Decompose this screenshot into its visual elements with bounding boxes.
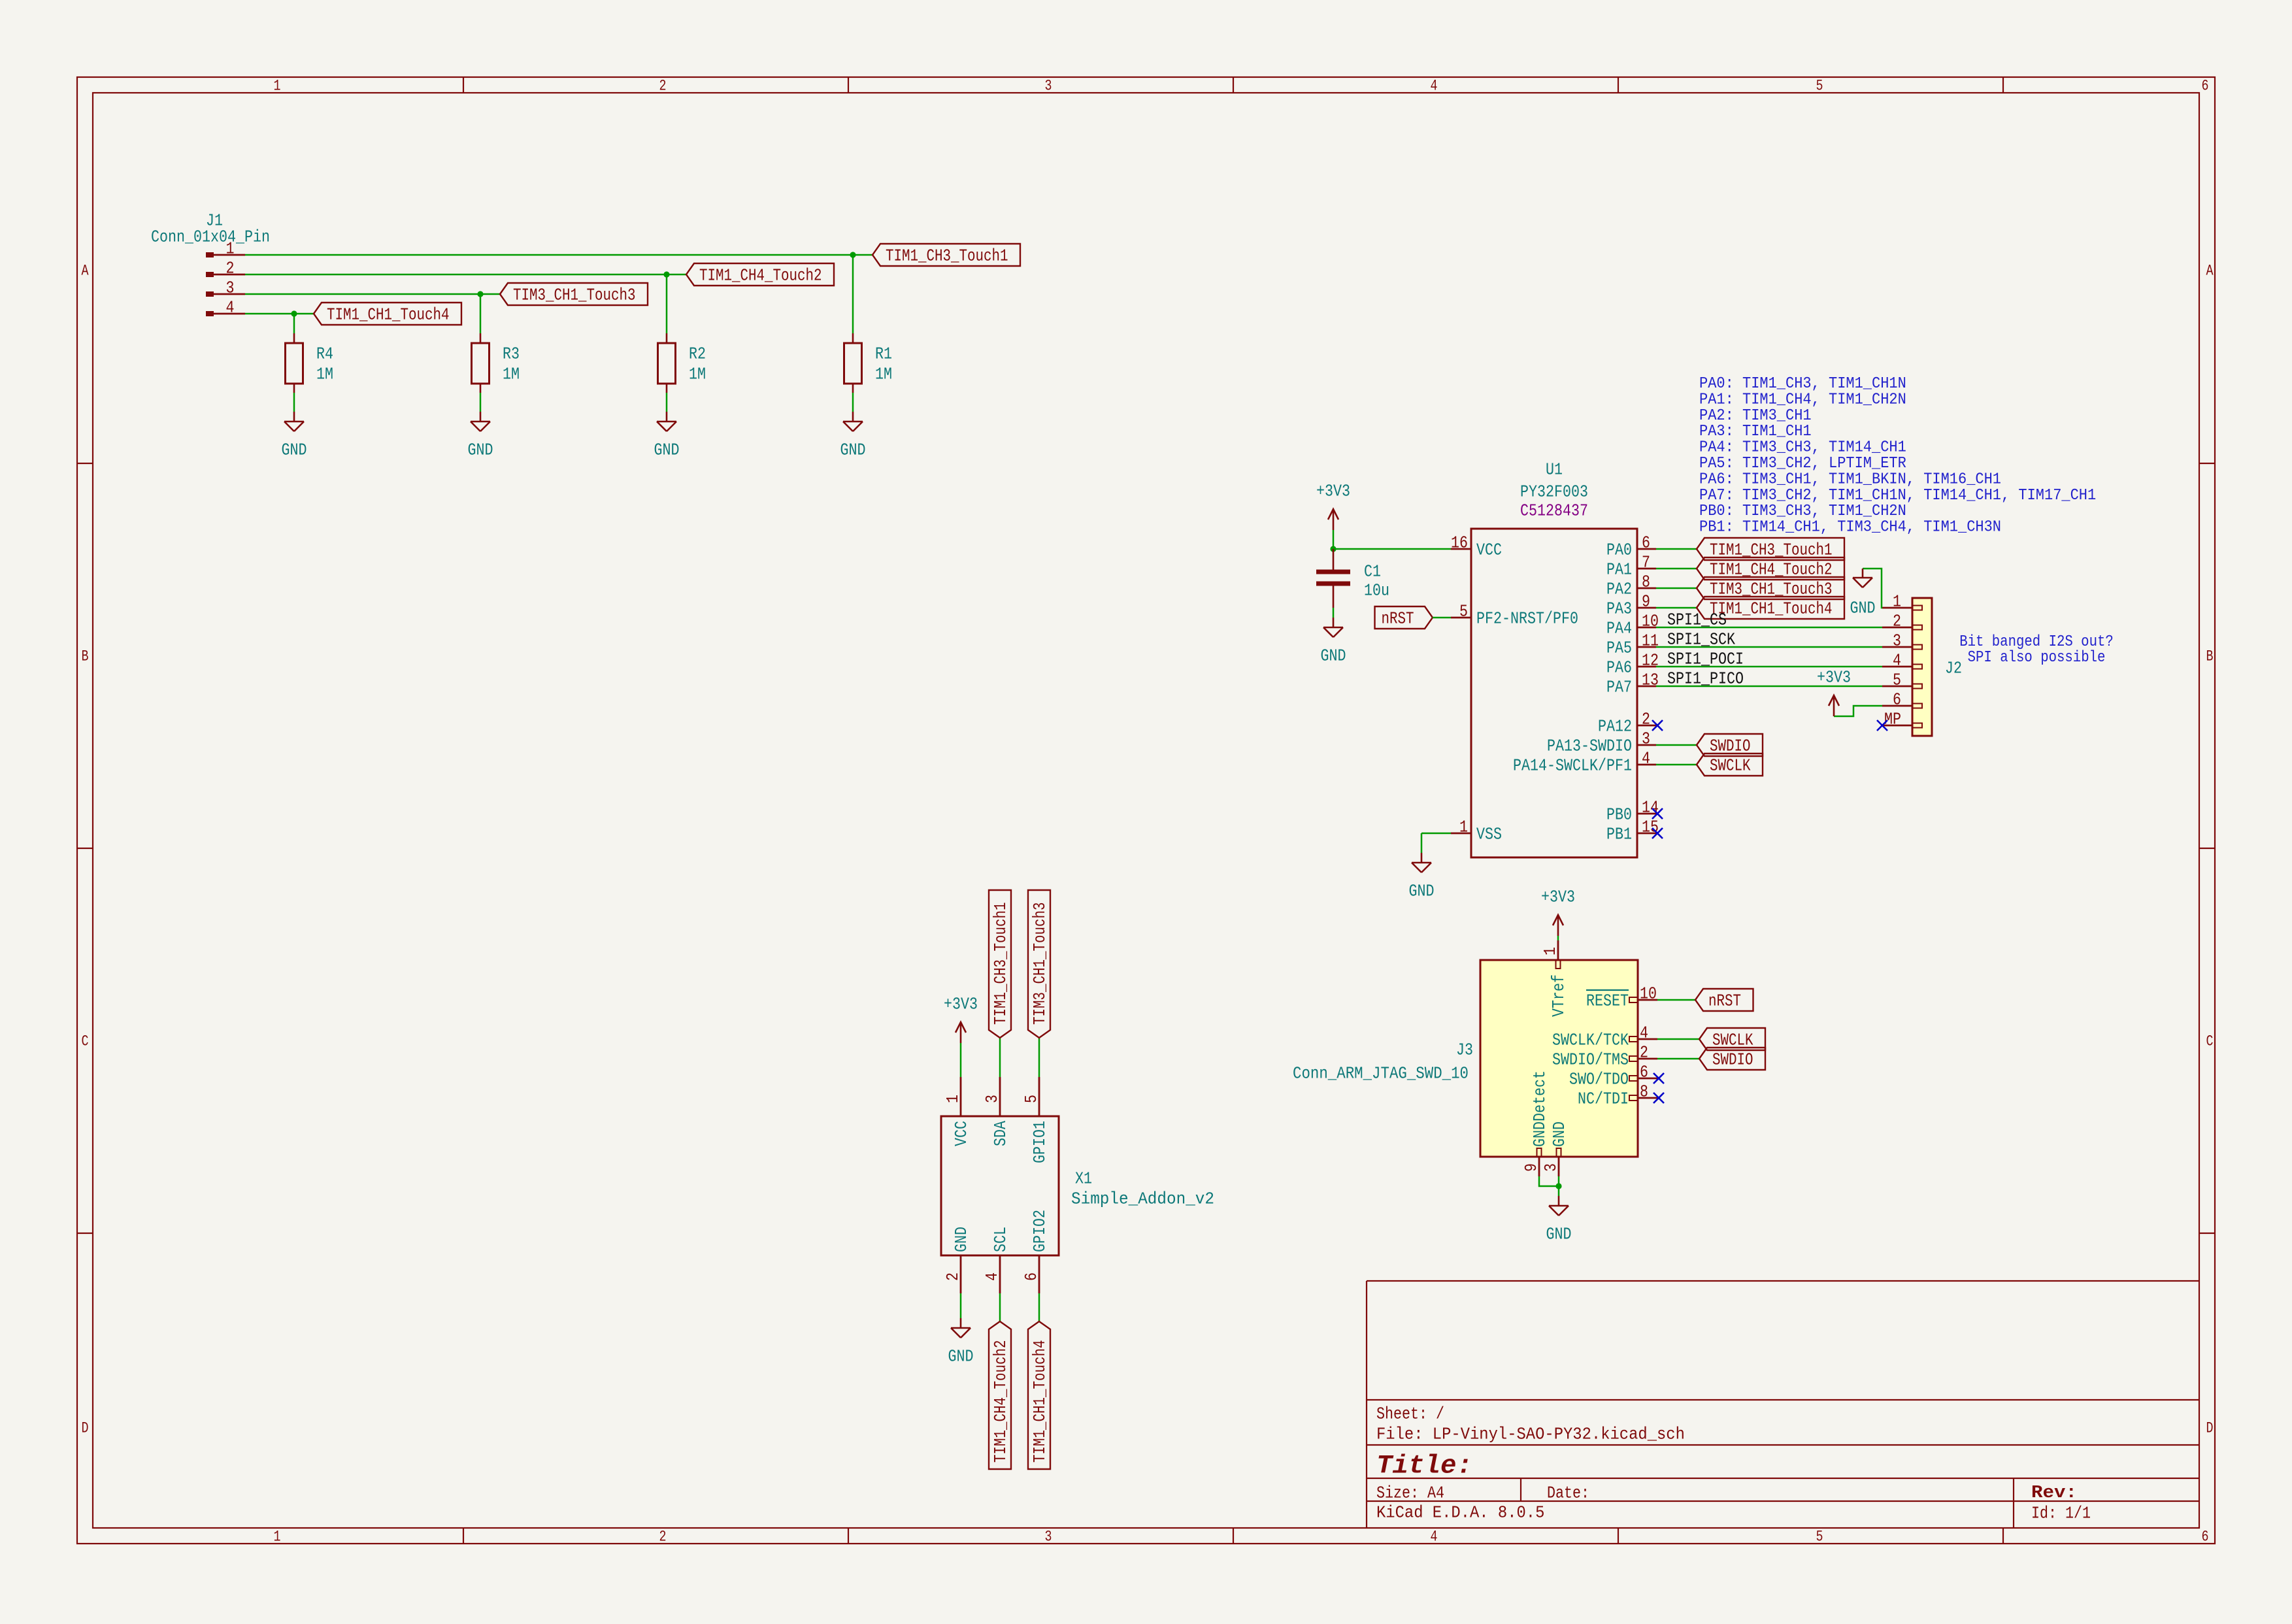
svg-text:PB0: TIM3_CH3, TIM1_CH2N: PB0: TIM3_CH3, TIM1_CH2N bbox=[1699, 503, 1906, 520]
svg-text:1M: 1M bbox=[316, 365, 333, 384]
svg-text:PA1: PA1 bbox=[1606, 560, 1632, 580]
svg-text:PB0: PB0 bbox=[1606, 805, 1632, 825]
svg-text:GPIO2: GPIO2 bbox=[1030, 1210, 1050, 1252]
svg-text:GND: GND bbox=[654, 440, 680, 460]
svg-text:GND: GND bbox=[1321, 646, 1346, 666]
svg-text:TIM1_CH1_Touch4: TIM1_CH1_Touch4 bbox=[1710, 599, 1833, 619]
svg-text:SPI also possible: SPI also possible bbox=[1968, 649, 2106, 667]
svg-text:A: A bbox=[82, 263, 89, 280]
svg-text:TIM1_CH4_Touch2: TIM1_CH4_Touch2 bbox=[699, 266, 822, 286]
svg-text:PA13-SWDIO: PA13-SWDIO bbox=[1547, 737, 1632, 756]
svg-text:10: 10 bbox=[1640, 984, 1657, 1004]
svg-text:Date:: Date: bbox=[1547, 1483, 1589, 1503]
svg-text:Bit banged I2S out?: Bit banged I2S out? bbox=[1959, 633, 2114, 651]
svg-text:GND: GND bbox=[1409, 882, 1435, 901]
svg-text:6: 6 bbox=[2202, 78, 2209, 95]
svg-text:C5128437: C5128437 bbox=[1520, 501, 1588, 521]
svg-text:2: 2 bbox=[943, 1272, 963, 1281]
svg-text:4: 4 bbox=[1431, 1529, 1438, 1546]
svg-text:5: 5 bbox=[1021, 1095, 1041, 1103]
svg-text:GND: GND bbox=[948, 1347, 974, 1367]
svg-text:2: 2 bbox=[1642, 710, 1650, 729]
svg-text:nRST: nRST bbox=[1708, 991, 1741, 1011]
svg-text:8: 8 bbox=[1640, 1082, 1648, 1102]
svg-text:TIM1_CH1_Touch4: TIM1_CH1_Touch4 bbox=[327, 305, 450, 325]
svg-text:MP: MP bbox=[1884, 710, 1901, 729]
svg-text:3: 3 bbox=[1642, 729, 1650, 749]
svg-text:File: LP-Vinyl-SAO-PY32.kicad_: File: LP-Vinyl-SAO-PY32.kicad_sch bbox=[1376, 1425, 1685, 1444]
svg-text:R3: R3 bbox=[503, 344, 520, 364]
svg-text:1: 1 bbox=[1893, 592, 1901, 612]
svg-text:Size: A4: Size: A4 bbox=[1376, 1483, 1444, 1503]
svg-text:SWDIO: SWDIO bbox=[1712, 1050, 1753, 1070]
svg-text:Sheet: /: Sheet: / bbox=[1376, 1404, 1444, 1424]
svg-text:2: 2 bbox=[1640, 1043, 1648, 1063]
svg-text:4: 4 bbox=[226, 298, 235, 318]
svg-text:Id: 1/1: Id: 1/1 bbox=[2031, 1504, 2091, 1523]
svg-text:PA14-SWCLK/PF1: PA14-SWCLK/PF1 bbox=[1513, 756, 1632, 776]
svg-text:5: 5 bbox=[1459, 602, 1468, 621]
svg-text:PA3: TIM1_CH1: PA3: TIM1_CH1 bbox=[1699, 423, 1812, 440]
svg-text:VCC: VCC bbox=[1476, 540, 1502, 560]
svg-text:PB1: PB1 bbox=[1606, 825, 1632, 844]
svg-text:3: 3 bbox=[1541, 1163, 1561, 1172]
svg-text:1: 1 bbox=[1540, 947, 1560, 955]
svg-text:2: 2 bbox=[659, 1529, 667, 1546]
svg-text:D: D bbox=[2206, 1420, 2214, 1437]
svg-text:TIM3_CH1_Touch3: TIM3_CH1_Touch3 bbox=[1030, 903, 1050, 1025]
svg-text:+3V3: +3V3 bbox=[1316, 482, 1350, 501]
svg-text:PA5: PA5 bbox=[1606, 638, 1632, 658]
svg-text:PA2: TIM3_CH1: PA2: TIM3_CH1 bbox=[1699, 407, 1812, 425]
svg-text:Simple_Addon_v2: Simple_Addon_v2 bbox=[1071, 1189, 1214, 1209]
svg-text:PA2: PA2 bbox=[1606, 580, 1632, 599]
svg-text:SWDIO/TMS: SWDIO/TMS bbox=[1552, 1050, 1629, 1070]
svg-text:SWCLK: SWCLK bbox=[1710, 756, 1751, 776]
svg-text:3: 3 bbox=[226, 278, 235, 298]
svg-text:U1: U1 bbox=[1546, 460, 1563, 480]
svg-text:+3V3: +3V3 bbox=[1817, 668, 1851, 688]
svg-text:PB1: TIM14_CH1, TIM3_CH4, TIM1: PB1: TIM14_CH1, TIM3_CH4, TIM1_CH3N bbox=[1699, 519, 2001, 537]
svg-text:SPI1_POCI: SPI1_POCI bbox=[1667, 650, 1744, 669]
svg-text:C1: C1 bbox=[1364, 562, 1381, 582]
svg-text:1: 1 bbox=[226, 239, 235, 259]
svg-text:8: 8 bbox=[1642, 572, 1650, 592]
svg-text:GND: GND bbox=[468, 440, 493, 460]
svg-text:1M: 1M bbox=[503, 365, 520, 384]
svg-text:nRST: nRST bbox=[1382, 609, 1414, 629]
svg-text:1: 1 bbox=[274, 78, 281, 95]
svg-text:1: 1 bbox=[274, 1529, 281, 1546]
svg-text:6: 6 bbox=[1642, 533, 1650, 553]
svg-text:SWCLK/TCK: SWCLK/TCK bbox=[1552, 1031, 1629, 1050]
svg-text:16: 16 bbox=[1451, 533, 1468, 553]
svg-text:TIM1_CH1_Touch4: TIM1_CH1_Touch4 bbox=[1030, 1340, 1050, 1463]
svg-text:PA1: TIM1_CH4, TIM1_CH2N: PA1: TIM1_CH4, TIM1_CH2N bbox=[1699, 391, 1906, 408]
svg-text:SCL: SCL bbox=[991, 1227, 1010, 1252]
svg-text:3: 3 bbox=[1045, 1529, 1052, 1546]
svg-text:A: A bbox=[2206, 263, 2214, 280]
svg-text:PF2-NRST/PF0: PF2-NRST/PF0 bbox=[1476, 609, 1578, 629]
svg-text:B: B bbox=[2206, 648, 2214, 665]
svg-text:C: C bbox=[82, 1033, 89, 1050]
svg-text:PA3: PA3 bbox=[1606, 599, 1632, 619]
svg-text:PA6: TIM3_CH1, TIM1_BKIN, TIM1: PA6: TIM3_CH1, TIM1_BKIN, TIM16_CH1 bbox=[1699, 471, 2001, 488]
svg-text:GPIO1: GPIO1 bbox=[1030, 1121, 1050, 1163]
svg-text:PA12: PA12 bbox=[1598, 717, 1632, 737]
svg-text:Conn_01x04_Pin: Conn_01x04_Pin bbox=[151, 227, 270, 247]
svg-text:KiCad E.D.A. 8.0.5: KiCad E.D.A. 8.0.5 bbox=[1376, 1503, 1544, 1523]
svg-text:1: 1 bbox=[943, 1095, 963, 1103]
svg-text:J2: J2 bbox=[1945, 659, 1962, 678]
svg-text:SPI1_PICO: SPI1_PICO bbox=[1667, 669, 1744, 689]
svg-text:GND: GND bbox=[1550, 1121, 1569, 1147]
svg-text:R1: R1 bbox=[875, 344, 892, 364]
svg-text:PA5: TIM3_CH2, LPTIM_ETR: PA5: TIM3_CH2, LPTIM_ETR bbox=[1699, 455, 1906, 472]
svg-text:GND: GND bbox=[840, 440, 866, 460]
svg-text:GND: GND bbox=[952, 1227, 971, 1252]
svg-text:4: 4 bbox=[1642, 749, 1650, 769]
svg-text:GND: GND bbox=[1546, 1225, 1572, 1244]
svg-text:PA0: PA0 bbox=[1606, 540, 1632, 560]
svg-text:5: 5 bbox=[1816, 78, 1823, 95]
svg-text:6: 6 bbox=[1893, 690, 1901, 710]
svg-text:VCC: VCC bbox=[952, 1121, 971, 1146]
svg-text:1M: 1M bbox=[875, 365, 892, 384]
svg-text:J3: J3 bbox=[1456, 1040, 1473, 1060]
svg-text:GNDDetect: GNDDetect bbox=[1530, 1070, 1550, 1147]
svg-text:VTref: VTref bbox=[1549, 974, 1569, 1017]
svg-text:TIM3_CH1_Touch3: TIM3_CH1_Touch3 bbox=[513, 286, 636, 305]
svg-text:+3V3: +3V3 bbox=[1541, 887, 1575, 907]
svg-text:3: 3 bbox=[1045, 78, 1052, 95]
svg-text:1M: 1M bbox=[689, 365, 706, 384]
svg-text:PA7: TIM3_CH2, TIM1_CH1N, TIM1: PA7: TIM3_CH2, TIM1_CH1N, TIM14_CH1, TIM… bbox=[1699, 487, 2096, 505]
svg-text:SDA: SDA bbox=[991, 1121, 1010, 1146]
svg-text:TIM1_CH3_Touch1: TIM1_CH3_Touch1 bbox=[886, 246, 1008, 266]
svg-text:4: 4 bbox=[1640, 1023, 1648, 1043]
svg-text:RESET: RESET bbox=[1586, 991, 1629, 1011]
svg-text:PY32F003: PY32F003 bbox=[1520, 482, 1588, 502]
svg-text:B: B bbox=[82, 648, 89, 665]
svg-text:1: 1 bbox=[1459, 818, 1468, 837]
svg-text:9: 9 bbox=[1521, 1163, 1541, 1172]
svg-text:C: C bbox=[2206, 1033, 2214, 1050]
svg-text:2: 2 bbox=[1893, 612, 1901, 631]
svg-text:SWO/TDO: SWO/TDO bbox=[1569, 1070, 1629, 1089]
svg-text:5: 5 bbox=[1816, 1529, 1823, 1546]
svg-text:3: 3 bbox=[1893, 631, 1901, 651]
svg-text:PA6: PA6 bbox=[1606, 658, 1632, 678]
svg-text:10u: 10u bbox=[1364, 581, 1389, 601]
svg-text:4: 4 bbox=[1431, 78, 1438, 95]
svg-text:Rev:: Rev: bbox=[2031, 1483, 2077, 1503]
svg-text:2: 2 bbox=[226, 259, 235, 278]
svg-text:3: 3 bbox=[982, 1095, 1002, 1103]
svg-text:TIM1_CH3_Touch1: TIM1_CH3_Touch1 bbox=[991, 903, 1010, 1025]
svg-text:PA4: PA4 bbox=[1606, 619, 1632, 638]
svg-text:PA7: PA7 bbox=[1606, 678, 1632, 697]
svg-text:X1: X1 bbox=[1075, 1169, 1092, 1189]
svg-text:TIM1_CH4_Touch2: TIM1_CH4_Touch2 bbox=[991, 1340, 1010, 1463]
svg-text:4: 4 bbox=[1893, 651, 1901, 671]
svg-text:6: 6 bbox=[2202, 1529, 2209, 1546]
svg-text:Title:: Title: bbox=[1376, 1451, 1472, 1481]
svg-text:9: 9 bbox=[1642, 592, 1650, 612]
svg-text:PA4: TIM3_CH3, TIM14_CH1: PA4: TIM3_CH3, TIM14_CH1 bbox=[1699, 439, 1906, 457]
svg-text:6: 6 bbox=[1640, 1063, 1648, 1082]
svg-text:R2: R2 bbox=[689, 344, 706, 364]
svg-text:SPI1_CS: SPI1_CS bbox=[1667, 610, 1727, 630]
svg-text:SPI1_SCK: SPI1_SCK bbox=[1667, 630, 1735, 650]
svg-text:+3V3: +3V3 bbox=[944, 995, 978, 1014]
svg-text:GND: GND bbox=[282, 440, 307, 460]
svg-text:5: 5 bbox=[1893, 671, 1901, 690]
svg-text:VSS: VSS bbox=[1476, 825, 1502, 844]
svg-text:2: 2 bbox=[659, 78, 667, 95]
svg-text:NC/TDI: NC/TDI bbox=[1578, 1089, 1629, 1109]
svg-text:6: 6 bbox=[1021, 1272, 1041, 1281]
svg-text:GND: GND bbox=[1850, 599, 1876, 618]
svg-text:4: 4 bbox=[982, 1272, 1002, 1281]
svg-text:7: 7 bbox=[1642, 553, 1650, 572]
svg-text:R4: R4 bbox=[316, 344, 333, 364]
svg-text:D: D bbox=[82, 1420, 89, 1437]
svg-text:Conn_ARM_JTAG_SWD_10: Conn_ARM_JTAG_SWD_10 bbox=[1293, 1064, 1469, 1084]
svg-text:PA0: TIM1_CH3, TIM1_CH1N: PA0: TIM1_CH3, TIM1_CH1N bbox=[1699, 375, 1906, 393]
